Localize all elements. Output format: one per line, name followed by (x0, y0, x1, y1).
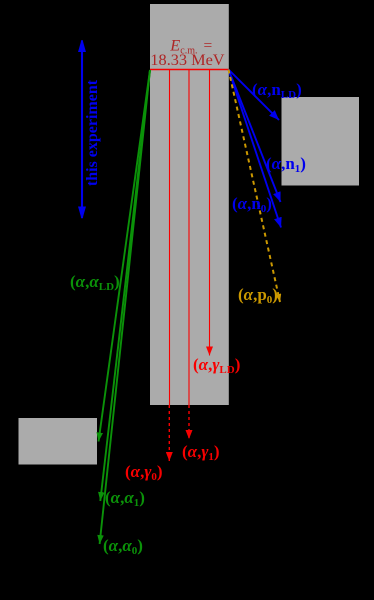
svg-text:(α,α1): (α,α1) (105, 488, 145, 509)
svg-text:(α,n1): (α,n1) (266, 154, 306, 175)
svg-text:18.33 MeV: 18.33 MeV (150, 50, 224, 69)
svg-text:(α,α0): (α,α0) (103, 536, 143, 557)
svg-text:this experiment: this experiment (84, 79, 101, 186)
svg-text:(α,γ1): (α,γ1) (182, 442, 220, 463)
svg-text:(α,γ0): (α,γ0) (125, 462, 163, 483)
svg-text:(α,n0): (α,n0) (232, 194, 272, 215)
svg-text:(α,p0): (α,p0) (238, 285, 278, 306)
